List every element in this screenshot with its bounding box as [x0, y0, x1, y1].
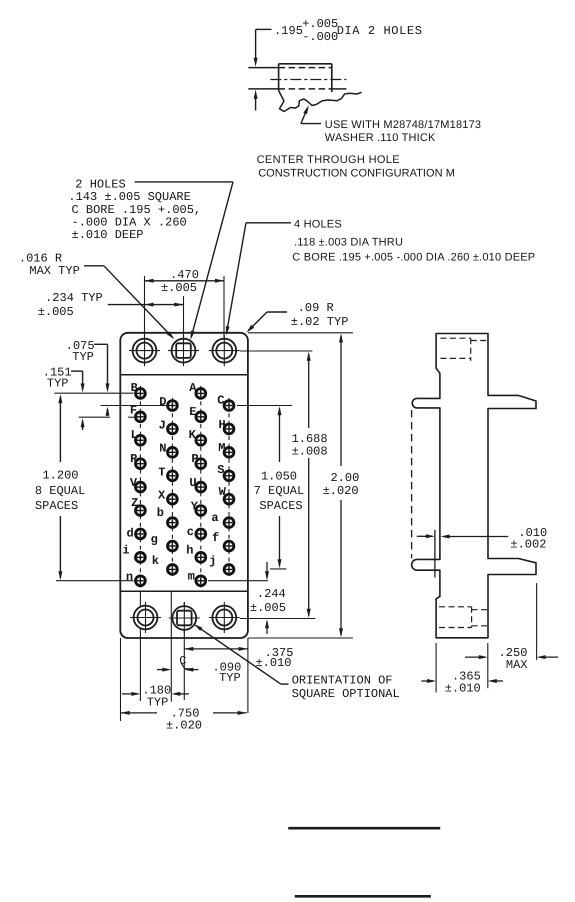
svg-text:.195: .195 [274, 24, 303, 38]
svg-text:±.02 TYP: ±.02 TYP [291, 315, 349, 329]
svg-text:U: U [189, 476, 196, 490]
svg-text:±.010 DEEP: ±.010 DEEP [72, 228, 144, 242]
svg-text:N: N [159, 442, 166, 456]
svg-text:.118 ±.003 DIA THRU: .118 ±.003 DIA THRU [294, 236, 403, 248]
svg-text:X: X [158, 488, 166, 502]
svg-text:±.008: ±.008 [292, 445, 328, 459]
svg-text:S: S [217, 463, 224, 477]
svg-text:±.010: ±.010 [445, 681, 481, 695]
svg-text:USE WITH M28748/17M18173: USE WITH M28748/17M18173 [325, 119, 481, 131]
svg-text:SQUARE OPTIONAL: SQUARE OPTIONAL [292, 687, 400, 701]
svg-text:K: K [189, 428, 197, 442]
svg-text:J: J [159, 418, 166, 432]
svg-text:P: P [191, 452, 198, 466]
svg-text:B: B [131, 381, 138, 395]
svg-text:WASHER .110 THICK: WASHER .110 THICK [325, 132, 436, 144]
svg-text:i: i [122, 543, 129, 557]
svg-text:TYP: TYP [219, 671, 241, 685]
svg-text:V: V [130, 476, 138, 490]
svg-text:D: D [159, 395, 166, 409]
svg-text:d: d [126, 527, 133, 541]
svg-text:CENTER THROUGH HOLE: CENTER THROUGH HOLE [257, 154, 400, 166]
svg-text:±.020: ±.020 [323, 484, 359, 498]
svg-text:±.005: ±.005 [38, 305, 74, 319]
svg-text:8 EQUAL: 8 EQUAL [35, 484, 85, 498]
svg-text:.244: .244 [257, 587, 286, 601]
svg-text:±.005: ±.005 [250, 601, 286, 615]
svg-text:DIA 2 HOLES: DIA 2 HOLES [337, 24, 423, 38]
svg-text:m: m [188, 570, 195, 584]
svg-text:2.00: 2.00 [330, 471, 359, 485]
svg-text:-.000: -.000 [302, 30, 338, 44]
svg-text:a: a [211, 511, 218, 525]
svg-text:E: E [189, 405, 196, 419]
svg-text:L: L [131, 428, 138, 442]
svg-text:Y: Y [191, 500, 199, 514]
svg-text:h: h [186, 544, 193, 558]
svg-text:1.200: 1.200 [42, 469, 78, 483]
svg-text:SPACES: SPACES [35, 499, 78, 513]
svg-text:c: c [187, 525, 194, 539]
svg-text:M: M [218, 441, 225, 455]
svg-text:C: C [217, 394, 224, 408]
svg-text:j: j [209, 554, 216, 568]
svg-text:g: g [151, 533, 158, 547]
svg-text:MAX: MAX [506, 658, 528, 672]
svg-text:±.020: ±.020 [166, 719, 202, 733]
svg-text:±.010: ±.010 [255, 656, 291, 670]
svg-text:4 HOLES: 4 HOLES [294, 218, 342, 230]
svg-text:±.002: ±.002 [510, 537, 546, 551]
svg-text:7 EQUAL: 7 EQUAL [254, 484, 304, 498]
svg-text:W: W [219, 485, 227, 499]
svg-text:R: R [130, 452, 138, 466]
svg-text:.234 TYP: .234 TYP [45, 291, 103, 305]
svg-text:±.005: ±.005 [161, 281, 197, 295]
svg-text:k: k [152, 554, 159, 568]
svg-text:H: H [218, 418, 225, 432]
svg-text:MAX TYP: MAX TYP [29, 264, 79, 278]
svg-text:F: F [130, 404, 137, 418]
svg-text:SPACES: SPACES [259, 499, 302, 513]
svg-text:n: n [126, 570, 133, 584]
svg-text:TYP: TYP [47, 376, 69, 390]
svg-text:f: f [212, 531, 219, 545]
svg-text:ORIENTATION OF: ORIENTATION OF [292, 674, 393, 688]
svg-text:A: A [189, 381, 197, 395]
svg-text:Z: Z [131, 496, 138, 510]
svg-text:C BORE .195 +.005 -.000 DIA .2: C BORE .195 +.005 -.000 DIA .260 ±.010 D… [292, 251, 535, 263]
svg-text:TYP: TYP [72, 350, 94, 364]
svg-text:CONSTRUCTION CONFIGURATION M: CONSTRUCTION CONFIGURATION M [258, 167, 455, 179]
svg-text:b: b [157, 506, 164, 520]
svg-text:1.050: 1.050 [261, 469, 297, 483]
svg-text:T: T [158, 465, 165, 479]
svg-text:TYP: TYP [147, 695, 169, 709]
svg-text:.09 R: .09 R [298, 301, 334, 315]
